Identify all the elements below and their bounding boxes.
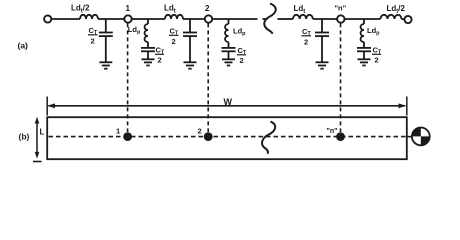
node 2 xyxy=(205,15,212,22)
W extension line left xyxy=(46,97,48,116)
svg-text:1: 1 xyxy=(116,127,120,136)
label CT/2 (C1) xyxy=(88,26,98,46)
capacitor CT/2 (shunt 2) xyxy=(222,48,236,59)
dashed drop line node 1 xyxy=(127,23,129,132)
svg-text:"n": "n" xyxy=(327,128,338,135)
label CT/2 (shunt 2) xyxy=(237,46,247,65)
wire xyxy=(212,18,257,20)
inductor L1 Ldt/2 xyxy=(80,15,98,19)
strip rectangle xyxy=(47,117,407,159)
svg-text:2: 2 xyxy=(375,56,379,65)
inductor Ldp #1 (shunt) xyxy=(145,19,148,48)
W extension line right xyxy=(406,97,408,116)
centerline dashed xyxy=(49,136,407,138)
ground (C3) xyxy=(316,62,329,68)
wire xyxy=(402,18,405,20)
svg-text:(a): (a) xyxy=(18,41,29,51)
svg-text:W: W xyxy=(224,97,233,107)
inductor L4 Ldt/2 xyxy=(381,15,402,19)
ground (C1) xyxy=(99,62,112,68)
label CT/2 (shunt 1) xyxy=(155,46,165,65)
left terminal xyxy=(44,15,51,22)
wire xyxy=(345,18,381,20)
wire break dash (left) xyxy=(263,18,268,20)
L extension tick xyxy=(33,161,42,163)
feed line to port symbol xyxy=(407,136,412,138)
dashed drop line node n xyxy=(340,23,342,132)
svg-text:L: L xyxy=(40,128,45,137)
inductor L3 Ldt xyxy=(293,15,313,19)
ground (shunt n) xyxy=(358,59,371,65)
node n xyxy=(337,15,344,22)
svg-text:2: 2 xyxy=(240,56,244,65)
svg-text:(b): (b) xyxy=(19,132,30,142)
right terminal xyxy=(404,16,411,23)
wire xyxy=(132,18,165,20)
capacitor CT/2 (shunt 1) xyxy=(141,48,155,59)
break squiggle (a) xyxy=(264,4,276,34)
wire xyxy=(183,18,205,20)
capacitor C2 CT/2 xyxy=(183,19,197,62)
inductor L2 Ldt xyxy=(165,15,183,19)
dot 2 xyxy=(204,132,213,141)
label CT/2 (C3) xyxy=(302,27,312,47)
label CT/2 (C2) xyxy=(169,27,179,47)
dot 1 xyxy=(123,132,132,141)
svg-text:1: 1 xyxy=(126,4,131,13)
capacitor C1 CT/2 xyxy=(99,19,113,62)
port symbol (quadrant circle) xyxy=(412,127,430,145)
dashed drop line node 2 xyxy=(207,23,209,132)
capacitor C3 CT/2 xyxy=(315,19,329,62)
ground (C2) xyxy=(184,62,197,68)
inductor Ldp #n (shunt) xyxy=(361,19,364,48)
svg-text:2: 2 xyxy=(198,127,202,136)
ground (shunt 1) xyxy=(142,59,155,65)
W arrowhead left xyxy=(47,103,55,108)
break squiggle (b) xyxy=(262,122,275,154)
node 1 xyxy=(124,15,131,22)
wire xyxy=(98,18,124,20)
svg-text:"n": "n" xyxy=(335,4,347,13)
W dimension line xyxy=(49,105,406,107)
svg-text:2: 2 xyxy=(158,56,162,65)
label CT/2 (shunt n) xyxy=(372,46,382,65)
svg-text:2: 2 xyxy=(172,37,176,46)
wire xyxy=(52,18,80,20)
ground (shunt 2) xyxy=(222,59,235,65)
svg-text:2: 2 xyxy=(205,4,210,13)
dot n xyxy=(336,132,345,141)
wire xyxy=(313,18,337,20)
W arrowhead right xyxy=(399,103,407,108)
svg-text:2: 2 xyxy=(91,37,95,46)
svg-text:2: 2 xyxy=(304,38,308,47)
wire break dash (right) xyxy=(278,18,294,20)
inductor Ldp #2 (shunt) xyxy=(225,19,228,48)
L dimension arrow xyxy=(35,117,40,159)
capacitor CT/2 (shunt n) xyxy=(357,48,371,59)
